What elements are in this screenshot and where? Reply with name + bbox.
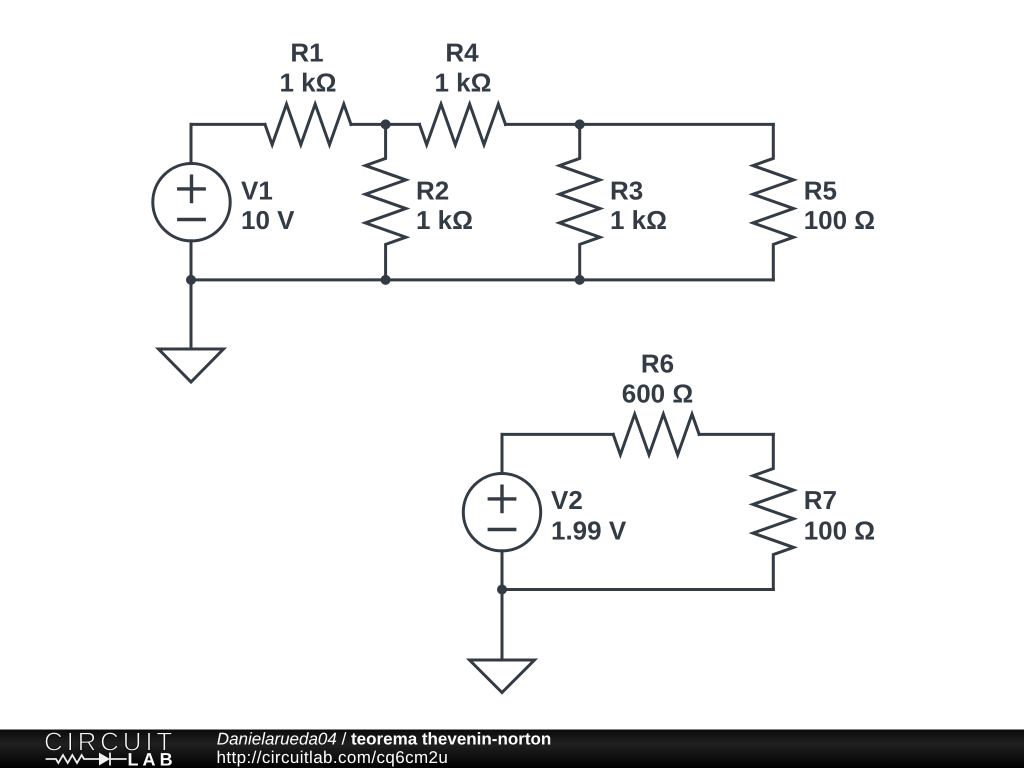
- footer bar: [0, 730, 1024, 768]
- svg-text:http://circuitlab.com/cq6cm2u: http://circuitlab.com/cq6cm2u: [217, 748, 449, 767]
- resistor R1: [265, 104, 351, 145]
- svg-text:R4: R4: [445, 38, 479, 68]
- wire ground lead 1: [190, 280, 193, 349]
- svg-text:R6: R6: [641, 349, 674, 379]
- svg-text:100 Ω: 100 Ω: [804, 516, 875, 546]
- wire V2 top lead: [501, 434, 504, 473]
- logo resistor-diode glyph: [46, 753, 127, 766]
- resistor R3: [559, 124, 600, 280]
- wire ground lead 2: [501, 590, 504, 661]
- svg-text:R2: R2: [416, 175, 449, 205]
- wire top rail left (V1 to R1): [191, 123, 265, 126]
- resistor R7: [753, 434, 794, 589]
- logo diode triangle: [99, 753, 110, 766]
- svg-text:R5: R5: [804, 175, 837, 205]
- wire V2 bottom lead: [501, 551, 504, 590]
- voltage source V1: [153, 164, 230, 241]
- wire lower bottom rail: [502, 588, 773, 591]
- wire bottom rail: [191, 278, 773, 281]
- ground symbol 1: [159, 349, 224, 382]
- svg-text:1 kΩ: 1 kΩ: [416, 205, 473, 235]
- wire V1 top lead: [190, 124, 193, 163]
- node dot top rail at R3: [575, 119, 585, 129]
- ground symbol 2: [470, 660, 535, 693]
- voltage source V2: [463, 474, 540, 551]
- wire top rail right (R4 to R5): [506, 123, 774, 126]
- svg-text:100 Ω: 100 Ω: [804, 205, 875, 235]
- svg-text:600 Ω: 600 Ω: [622, 378, 693, 408]
- node dot top rail at R2: [381, 119, 391, 129]
- node dot bottom rail at V1/ground: [186, 275, 196, 285]
- node dot bottom rail at R2: [381, 275, 391, 285]
- resistor R2: [365, 124, 406, 280]
- resistor R4: [420, 104, 506, 145]
- resistor R6: [613, 414, 699, 455]
- svg-text:R7: R7: [804, 485, 837, 515]
- svg-text:LAB: LAB: [128, 750, 177, 768]
- svg-text:1 kΩ: 1 kΩ: [610, 205, 667, 235]
- svg-text:R3: R3: [610, 175, 643, 205]
- wire V1 bottom lead: [190, 241, 193, 280]
- wire lower top rail right (R6 to R7): [699, 433, 773, 436]
- resistor R5: [753, 124, 794, 280]
- svg-text:1 kΩ: 1 kΩ: [435, 68, 492, 98]
- svg-text:10 V: 10 V: [241, 205, 295, 235]
- node dot lower bottom rail at V2/ground: [497, 585, 507, 595]
- wire lower top rail left (V2 to R6): [502, 433, 613, 436]
- wire top rail mid (R1 to R4): [351, 123, 420, 126]
- svg-text:1 kΩ: 1 kΩ: [280, 68, 337, 98]
- svg-text:Danielarueda04 / teorema theve: Danielarueda04 / teorema thevenin-norton: [217, 730, 551, 749]
- svg-text:1.99 V: 1.99 V: [551, 516, 627, 546]
- svg-text:V1: V1: [241, 175, 273, 205]
- svg-text:V2: V2: [551, 485, 583, 515]
- node dot bottom rail at R3: [575, 275, 585, 285]
- svg-text:R1: R1: [290, 38, 323, 68]
